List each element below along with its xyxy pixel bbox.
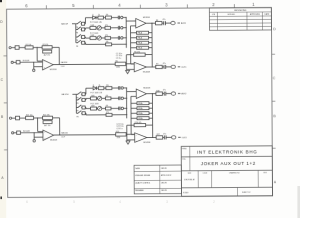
resistor R31 gain select [137,112,149,115]
svg-text:POT 100K LIN: POT 100K LIN [90,22,102,24]
switch S10 [76,99,77,101]
svg-text:AUX2: AUX2 [181,92,186,95]
svg-text:R27: R27 [157,134,160,136]
svg-text:R22 47k: R22 47k [43,115,50,117]
resistor R1 10k input [25,46,33,49]
connector J23 output [171,136,175,139]
switch common vertical wire [75,24,77,43]
resistor R33 diode row [98,87,104,90]
wire noninverting input to ground circle [34,136,43,138]
wire switch 2 to pot row 1 [84,28,87,30]
svg-text:IN 100R: IN 100R [23,60,30,62]
resistor R29 gain select [137,102,149,105]
svg-text:R5: R5 [116,60,118,62]
svg-text:JOKER AUX OUT 1+2: JOKER AUX OUT 1+2 [201,161,256,166]
svg-text:6: 6 [26,200,28,204]
svg-text:PB: PB [77,116,79,118]
wire bus to send amp input [127,90,137,92]
capacitor C24 output electrolytic [163,136,165,138]
svg-text:MC4558: MC4558 [143,71,150,73]
zone tick marks top edge [45,5,47,9]
svg-text:PB: PB [76,27,78,29]
svg-text:PB: PB [76,97,78,99]
svg-text:SCALE: SCALE [183,191,189,194]
resistor R6 feedback of output op-amp [134,53,146,56]
svg-text:GA 10U: GA 10U [61,61,68,64]
faint scan shadow right edge [297,186,300,218]
svg-text:47k: 47k [105,25,108,27]
svg-text:MC4558: MC4558 [143,17,150,19]
input series box X2 [16,60,20,63]
wire send amp output [146,22,155,24]
op-amp U1A input stage [42,59,53,69]
channel 2 AUX OUT 2 [9,84,187,145]
svg-text:R25: R25 [116,131,119,133]
svg-text:2: 2 [213,200,215,204]
svg-text:MC4558: MC4558 [143,87,150,89]
wire output to node [147,66,156,68]
connector J4 send output [171,21,175,24]
svg-text:PB A: PB A [138,112,143,115]
title block firm label cell divider [189,146,191,156]
switch S1 [76,23,77,25]
wire input row1 to node [34,117,43,119]
scan speck top-left corner [0,0,2,2]
connector J22 input jack 2 [12,132,14,134]
svg-text:PB A: PB A [138,117,143,120]
svg-text:R1 10k: R1 10k [26,44,32,46]
resistor R3 value label [43,50,52,53]
connector J21 input jack [9,117,11,119]
approval table row lines [134,170,181,172]
svg-text:3: 3 [166,200,168,204]
svg-text:KRUEGER JURGEN: KRUEGER JURGEN [135,175,151,177]
resistor R15 row 4 [106,43,112,46]
wire switch 4 to row 4 [84,42,87,44]
net label OUT2 [178,136,180,138]
capacitor C5 send electrolytic [162,22,164,24]
wire switch 3 to pot row 2 [84,36,87,38]
wire switch 3 to pot row 2 [84,106,87,108]
capacitor C6 coupling and connector [117,16,119,20]
connector J1 input jack [9,47,11,49]
resistor R30 gain select [137,107,149,110]
svg-text:PB A: PB A [138,42,143,45]
resistor R27 output series [156,136,163,139]
resistor R23 value label [43,121,52,124]
revision table row lines [209,15,271,17]
resistor R21 10k input [26,116,34,119]
wire switch 4 to row 4 [84,112,87,114]
svg-text:AUX1: AUX1 [181,22,186,25]
wire vertical junction bus right [151,23,153,67]
title block row4 divider [236,187,238,195]
svg-text:PB: PB [76,32,78,34]
switch S3 [76,36,77,38]
wire node to inverting input [37,118,39,132]
ground stub with shield circle [33,62,35,69]
wire switch 2 to pot row 1 [84,99,87,101]
wire output to node [147,136,156,138]
svg-text:DATE: DATE [265,13,270,16]
svg-text:47k: 47k [106,105,109,107]
svg-text:R28: R28 [156,90,159,92]
svg-text:4: 4 [119,200,121,204]
svg-text:TITEL: TITEL [182,159,186,161]
svg-text:10k: 10k [106,85,109,87]
revision table header row line [209,11,271,13]
svg-text:47u: 47u [163,133,166,135]
resistor R5 22k summing [115,62,126,65]
svg-text:POT 100K: POT 100K [90,33,99,35]
switch common vertical wire [75,94,77,113]
wire feedback drop to summing node [125,55,127,64]
svg-text:R21 10k: R21 10k [26,115,33,117]
title block row3 cell dividers [197,171,199,188]
svg-text:47u: 47u [162,19,165,21]
scan speck left edge [0,197,2,200]
potentiometer P row at y28 [90,97,96,100]
wire feedback bus vertical left [130,96,132,134]
capacitor C26 coupling and connector [118,86,120,90]
switch S2 [76,28,77,30]
connector J3 output [171,65,175,68]
wire gain network to send amp input [131,95,136,97]
svg-text:5: 5 [73,200,75,204]
resistor R7 output series [156,65,163,68]
wire send amp output [147,93,156,95]
svg-text:R6 47k: R6 47k [134,51,140,53]
svg-text:INT ELEKTRONIK BHG: INT ELEKTRONIK BHG [197,149,258,154]
svg-text:10UF: 10UF [61,66,65,68]
wire vertical junction bus right [151,94,153,138]
switch S4 [76,42,77,44]
svg-text:MC4558: MC4558 [50,140,57,142]
input series box X21 [16,116,20,120]
potentiometer P row at y38 [90,37,96,40]
switch S12 [76,112,77,114]
approval table column divider [159,165,161,194]
paper edge tint left [0,0,6,218]
op-amp U1B output stage [134,62,146,72]
potentiometer P row at y28 [90,26,96,29]
svg-text:GA 10U: GA 10U [61,132,68,135]
resistor R12 gain select [137,46,149,49]
svg-text:MC4558: MC4558 [144,142,151,144]
svg-text:1k: 1k [99,85,101,87]
svg-text:R2 47k: R2 47k [43,44,49,46]
wire noninverting input to ground circle [34,66,43,68]
resistor R14 diode row 2 [105,16,111,19]
wire switch 1 to diode path [84,23,87,25]
switch S11 [76,107,77,109]
svg-text:47k: 47k [106,95,109,97]
net label AUX1 [177,22,179,24]
svg-text:47k: 47k [106,112,109,114]
op-amp U2A send amp [136,18,146,28]
resistor R11 gain select [137,41,149,44]
svg-text:POT 100K: POT 100K [90,103,99,105]
connector J2 input jack 2 [11,61,13,63]
svg-text:PB A: PB A [138,47,143,50]
svg-text:IN 100R: IN 100R [23,131,30,133]
svg-text:47k: 47k [106,41,109,43]
svg-text:POT 100K LIN: POT 100K LIN [90,92,102,94]
wire to noninverting input of output op-amp [126,134,128,140]
svg-text:ECN NO.: ECN NO. [228,14,236,16]
wire bus to send amp input [126,20,136,22]
svg-text:PB A: PB A [138,37,143,40]
svg-text:PB: PB [76,46,78,48]
net label OUT1 [178,66,180,68]
wire op-amp output long run [53,63,115,65]
zone tick marks left edge [3,55,6,57]
op-amp U3B output stage [135,133,147,143]
svg-text:10k: 10k [106,14,109,16]
resistor R2 47k feedback [42,46,52,49]
capacitor C4 output electrolytic [162,66,164,68]
net label AUX2 [178,93,180,95]
title block row lines [181,155,272,158]
potentiometer P row at y38 [90,107,96,110]
channel 1 AUX OUT 1 [9,14,187,75]
svg-text:4k7 1%: 4k7 1% [44,55,51,57]
resistor R25 22k summing [116,133,127,136]
svg-text:SHEET 1/2: SHEET 1/2 [242,192,250,194]
svg-text:OUT1: OUT1 [181,67,186,69]
wire to noninverting input of output op-amp [125,64,127,70]
svg-text:4k7 1%: 4k7 1% [44,125,51,127]
svg-text:GA 1CH: GA 1CH [61,93,69,96]
ground symbol [125,68,127,71]
op-amp U3A input stage [43,130,54,140]
resistor R35 row 4 [106,113,112,116]
svg-text:MC4558: MC4558 [50,69,57,71]
wire node to inverting input [36,47,38,61]
resistor R26 feedback of output op-amp [134,124,146,127]
resistor R10 gain select [137,36,149,39]
revision table outline [209,8,271,31]
resistor R32 gain select [137,117,149,120]
svg-text:R7: R7 [156,64,158,66]
svg-text:C3 1u: C3 1u [116,58,121,60]
capacitor C25 send electrolytic [162,93,164,95]
summing bus vertical wire [126,88,128,118]
svg-text:PB A: PB A [138,102,143,105]
op-amp U4A send amp [136,89,146,99]
svg-text:R8: R8 [156,20,158,22]
resistor R8 send series [155,21,162,24]
svg-text:SIZE: SIZE [188,173,192,175]
drawing frame border [7,8,273,198]
summing bus vertical wire [125,17,127,47]
switch S9 [76,93,77,95]
svg-text:47k: 47k [105,35,108,37]
svg-text:PB: PB [77,111,79,113]
svg-text:47u: 47u [163,90,166,92]
svg-text:47u: 47u [163,63,166,65]
wire feedback drop to summing node [126,125,128,134]
wire switch 1 to diode path [84,93,87,95]
svg-text:CODE: CODE [203,173,208,175]
svg-text:APPROVED: APPROVED [250,13,261,16]
diode D3 [93,86,96,89]
svg-text:PB A: PB A [138,107,143,110]
svg-text:PB: PB [76,40,78,42]
svg-text:PB A: PB A [138,32,143,35]
resistor R22 47k feedback [43,116,53,119]
svg-text:R26 47k: R26 47k [135,122,142,124]
svg-text:10UF: 10UF [61,137,65,139]
revision table column lines [216,12,218,30]
svg-text:GA 1CH: GA 1CH [61,22,69,25]
title block outline [181,146,272,196]
wire op-amp output long run [54,134,116,136]
wire feedback bus vertical left [129,26,131,64]
approval table outline [134,165,181,194]
resistor R28 send series [156,92,163,95]
svg-text:1k: 1k [98,15,100,17]
svg-text:JOK.R BL.M: JOK.R BL.M [184,179,195,181]
connector J24 send output [171,92,175,95]
svg-text:OUT2: OUT2 [182,137,187,139]
wire gain network to send amp input [130,25,135,27]
resistor R13 diode row [98,16,104,19]
diode D1 [93,16,96,19]
svg-text:PB: PB [76,103,78,105]
input series box X22 [17,131,21,134]
resistor R9 gain select [137,31,149,34]
ground symbol [126,139,128,142]
zone tick marks right edge [272,53,275,55]
resistor R34 diode row 2 [106,87,112,90]
input series box X1 [15,46,19,50]
svg-text:C23 1u: C23 1u [116,128,122,130]
wire input row1 to node [33,46,42,48]
ground stub with shield circle [33,133,35,140]
